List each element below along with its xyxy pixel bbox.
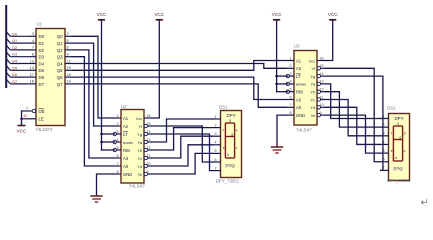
svg-text:12: 12 bbox=[147, 146, 151, 150]
svg-text:Yg: Yg bbox=[310, 74, 315, 79]
svg-text:3: 3 bbox=[32, 31, 34, 36]
svg-text:Q0: Q0 bbox=[57, 34, 63, 39]
svg-text:7: 7 bbox=[116, 162, 118, 166]
wire VCC1 stub to U2 RBI bbox=[102, 149, 115, 151]
wire U2 b to DS1 bbox=[152, 128, 213, 150]
svg-text:D7: D7 bbox=[39, 82, 45, 87]
svg-text:5: 5 bbox=[289, 88, 291, 92]
wire U2 a to DS1 bbox=[152, 119, 213, 142]
svg-text:11: 11 bbox=[147, 154, 151, 158]
svg-text:15: 15 bbox=[147, 122, 151, 126]
svg-text:a: a bbox=[229, 119, 231, 123]
wire D1 with bus entry bbox=[6, 38, 28, 43]
svg-text:Vcc: Vcc bbox=[136, 117, 142, 121]
junction bbox=[275, 75, 278, 78]
svg-text:3: 3 bbox=[116, 130, 118, 134]
svg-text:2: 2 bbox=[67, 31, 69, 36]
wire Q2 to U2 A3 bbox=[73, 50, 114, 158]
svg-text:DPY_7SEG: DPY_7SEG bbox=[387, 178, 411, 183]
svg-text:3: 3 bbox=[289, 72, 291, 76]
wire Q4 to U3 A2 bbox=[73, 64, 287, 69]
svg-text:g: g bbox=[399, 135, 401, 139]
svg-text:b: b bbox=[404, 131, 406, 135]
svg-text:D4: D4 bbox=[12, 60, 17, 64]
svg-text:Q5: Q5 bbox=[57, 68, 63, 73]
svg-text:19: 19 bbox=[67, 79, 71, 84]
svg-text:5: 5 bbox=[214, 149, 216, 153]
svg-text:13: 13 bbox=[147, 138, 151, 142]
svg-text:5: 5 bbox=[67, 38, 69, 43]
wire U3 b to DS2 bbox=[325, 92, 381, 127]
svg-text:A3: A3 bbox=[123, 156, 129, 161]
svg-text:14: 14 bbox=[30, 65, 35, 70]
svg-text:12: 12 bbox=[320, 88, 324, 92]
svg-text:Q1: Q1 bbox=[57, 41, 63, 46]
svg-text:A2: A2 bbox=[296, 66, 302, 71]
svg-text:10: 10 bbox=[147, 162, 151, 166]
svg-text:16: 16 bbox=[147, 114, 151, 118]
wire U3 f to DS2 bbox=[325, 68, 381, 161]
svg-text:DPY: DPY bbox=[394, 116, 403, 121]
svg-text:OE: OE bbox=[39, 109, 45, 114]
svg-text:f: f bbox=[223, 128, 224, 132]
wire Q3 to U2 A0 bbox=[73, 57, 114, 166]
svg-text:Ye: Ye bbox=[311, 113, 315, 118]
svg-text:74LS47: 74LS47 bbox=[296, 128, 312, 133]
svg-text:12: 12 bbox=[67, 58, 71, 63]
wire VCC1 stub to U2 BI/RBO bbox=[102, 141, 115, 143]
svg-text:D6: D6 bbox=[12, 73, 17, 77]
svg-text:D4: D4 bbox=[39, 61, 45, 66]
ground (U3) bbox=[271, 147, 283, 153]
svg-text:D6: D6 bbox=[39, 75, 45, 80]
svg-text:LT: LT bbox=[123, 132, 128, 137]
svg-text:Yb: Yb bbox=[310, 90, 315, 95]
svg-text:GND: GND bbox=[123, 172, 132, 177]
stray return-mark bbox=[421, 198, 429, 209]
svg-text:A1: A1 bbox=[296, 58, 302, 63]
svg-text:D0: D0 bbox=[12, 32, 17, 36]
svg-text:VCC: VCC bbox=[97, 12, 107, 17]
svg-text:2: 2 bbox=[289, 64, 291, 68]
svg-text:D2: D2 bbox=[39, 48, 45, 53]
svg-text:Yc: Yc bbox=[137, 156, 142, 161]
svg-text:A1: A1 bbox=[123, 116, 129, 121]
svg-text:6: 6 bbox=[289, 95, 291, 99]
svg-text:D1: D1 bbox=[39, 41, 45, 46]
svg-text:BI/RBO: BI/RBO bbox=[123, 141, 134, 145]
svg-text:4: 4 bbox=[32, 38, 35, 43]
svg-text:A0: A0 bbox=[296, 105, 302, 110]
wire U2 e to DS1 bbox=[152, 153, 213, 174]
svg-text:14: 14 bbox=[320, 72, 324, 76]
svg-text:6: 6 bbox=[214, 158, 216, 162]
svg-text:Yc: Yc bbox=[310, 97, 315, 102]
data bus bbox=[5, 5, 7, 88]
wire VCC3 stub to U3 RBI bbox=[277, 91, 288, 93]
svg-text:DS1: DS1 bbox=[219, 104, 228, 109]
svg-text:D2: D2 bbox=[12, 46, 17, 50]
svg-text:5: 5 bbox=[116, 146, 118, 150]
wire D3 with bus entry bbox=[6, 52, 28, 57]
wire VCC3 stub to U3 BI/RBO bbox=[277, 83, 288, 85]
svg-text:D1: D1 bbox=[12, 39, 17, 43]
display DS1 DPY_7SEG bbox=[213, 104, 242, 183]
wire D5 with bus entry bbox=[6, 66, 28, 71]
junction bbox=[100, 141, 103, 144]
svg-text:8: 8 bbox=[116, 170, 118, 174]
svg-text:LE: LE bbox=[39, 117, 44, 122]
svg-text:Yg: Yg bbox=[137, 132, 142, 137]
IC U3 74LS47 BCD to 7-seg decoder bbox=[286, 44, 325, 133]
svg-text:1: 1 bbox=[214, 115, 216, 119]
svg-text:GND: GND bbox=[296, 113, 305, 118]
power port VCC (U1 OE/LE) bbox=[17, 126, 27, 134]
svg-text:9: 9 bbox=[147, 170, 149, 174]
svg-text:A0: A0 bbox=[123, 164, 129, 169]
svg-text:Yd: Yd bbox=[310, 105, 315, 110]
svg-text:2: 2 bbox=[214, 123, 216, 127]
svg-text:Vcc: Vcc bbox=[309, 59, 315, 63]
svg-text:10: 10 bbox=[320, 103, 324, 107]
svg-text:8: 8 bbox=[32, 52, 34, 57]
svg-text:DPY: DPY bbox=[226, 113, 235, 118]
svg-text:17: 17 bbox=[30, 72, 34, 77]
svg-text:D7: D7 bbox=[12, 80, 17, 84]
wire VCC1 to U2 LT/BI/RBO/RBI bbox=[101, 20, 103, 150]
svg-text:Yd: Yd bbox=[137, 164, 142, 169]
svg-text:U1: U1 bbox=[37, 22, 43, 27]
wire D2 with bus entry bbox=[6, 45, 28, 50]
svg-text:[EDg]: [EDg] bbox=[394, 167, 403, 171]
svg-text:RBI: RBI bbox=[296, 90, 303, 95]
wire U3 c to DS2 bbox=[325, 100, 381, 136]
svg-text:U3: U3 bbox=[294, 44, 300, 49]
wire U2 GND bbox=[97, 174, 114, 196]
svg-text:VCC: VCC bbox=[272, 12, 282, 17]
svg-text:14: 14 bbox=[147, 130, 151, 134]
wire VCC3 to U3 LT/BI/RBO/RBI bbox=[276, 20, 278, 92]
svg-text:4: 4 bbox=[214, 141, 216, 145]
svg-text:D3: D3 bbox=[12, 53, 17, 57]
wire D0 with bus entry bbox=[6, 32, 28, 37]
wire Q7 to U3 A0 bbox=[73, 84, 287, 107]
wire VCC4 to U3 VCC pin bbox=[325, 20, 333, 61]
svg-text:DS2: DS2 bbox=[387, 106, 396, 111]
wire Q5 to U3 A1 bbox=[73, 61, 287, 71]
wire U3 a to DS2 bbox=[325, 84, 381, 119]
svg-text:D0: D0 bbox=[39, 34, 45, 39]
svg-text:Q2: Q2 bbox=[57, 48, 63, 53]
junction bbox=[100, 133, 103, 136]
wire U2 g to DS1 bbox=[152, 134, 213, 171]
svg-text:2: 2 bbox=[116, 122, 118, 126]
wire D4 with bus entry bbox=[6, 59, 28, 64]
wire OE/LE to power port bbox=[21, 111, 23, 126]
svg-text:b: b bbox=[236, 128, 238, 132]
wire D7 with bus entry bbox=[6, 79, 28, 84]
svg-text:4: 4 bbox=[116, 138, 118, 142]
svg-text:15: 15 bbox=[67, 65, 71, 70]
svg-text:D3: D3 bbox=[39, 55, 45, 60]
wire U3 g to DS2 bbox=[325, 76, 383, 170]
svg-text:1: 1 bbox=[116, 114, 118, 118]
svg-text:8: 8 bbox=[289, 111, 291, 115]
wire VCC1 stub to U2 LT bbox=[102, 133, 115, 135]
svg-text:16: 16 bbox=[67, 72, 71, 77]
wire U2 f to DS1 bbox=[152, 126, 213, 162]
svg-text:74LS47: 74LS47 bbox=[129, 183, 145, 188]
svg-text:7: 7 bbox=[214, 166, 216, 170]
power port VCC2 bbox=[154, 12, 164, 20]
wire VCC2 to U2 VCC pin bbox=[152, 20, 159, 118]
svg-text:7: 7 bbox=[32, 45, 34, 50]
wire VCC3 stub to U3 LT bbox=[277, 75, 288, 77]
svg-text:d: d bbox=[395, 156, 397, 160]
svg-text:18: 18 bbox=[30, 79, 34, 84]
power port VCC3 bbox=[272, 12, 282, 20]
svg-text:e: e bbox=[391, 149, 393, 153]
svg-text:16: 16 bbox=[320, 56, 324, 60]
svg-text:LT: LT bbox=[296, 74, 301, 79]
wire Q6 to U3 A3 bbox=[73, 77, 287, 99]
svg-text:D5: D5 bbox=[12, 66, 17, 70]
display DS2 DPY_7SEG bbox=[381, 106, 411, 184]
wire U2 c to DS1 bbox=[152, 136, 213, 158]
wire Q0 to U2 A1 bbox=[73, 36, 114, 118]
svg-text:Q6: Q6 bbox=[57, 75, 63, 80]
svg-text:A2: A2 bbox=[123, 124, 129, 129]
junction bbox=[275, 83, 278, 86]
wire D6 with bus entry bbox=[6, 72, 28, 77]
svg-text:15: 15 bbox=[320, 64, 324, 68]
power port VCC1 bbox=[97, 12, 107, 20]
IC U2 74LS47 BCD to 7-seg decoder bbox=[113, 104, 152, 189]
svg-text:7: 7 bbox=[289, 103, 291, 107]
junction bbox=[20, 118, 23, 121]
svg-text:U2: U2 bbox=[121, 104, 127, 109]
svg-text:9: 9 bbox=[67, 52, 69, 57]
wire U3 d to DS2 bbox=[325, 107, 381, 144]
svg-text:a: a bbox=[397, 122, 399, 126]
svg-text:13: 13 bbox=[30, 58, 34, 63]
svg-text:VCC: VCC bbox=[17, 129, 27, 134]
wire U3 GND bbox=[277, 115, 286, 147]
svg-text:e: e bbox=[223, 146, 225, 150]
svg-text:Q7: Q7 bbox=[57, 82, 63, 87]
svg-text:[EDg]: [EDg] bbox=[226, 164, 235, 168]
svg-text:9: 9 bbox=[320, 111, 322, 115]
svg-text:RBI: RBI bbox=[123, 148, 130, 153]
IC U1 74LS373 octal latch bbox=[22, 22, 73, 133]
svg-text:f: f bbox=[391, 131, 392, 135]
svg-text:6: 6 bbox=[116, 154, 118, 158]
svg-text:Q3: Q3 bbox=[57, 55, 63, 60]
svg-text:6: 6 bbox=[67, 45, 69, 50]
wire U2 d to DS1 bbox=[152, 145, 213, 166]
svg-text:1: 1 bbox=[26, 105, 28, 110]
svg-text:11: 11 bbox=[320, 95, 324, 99]
svg-text:13: 13 bbox=[320, 80, 324, 84]
svg-text:D5: D5 bbox=[39, 68, 45, 73]
svg-text:d: d bbox=[227, 153, 229, 157]
svg-text:A3: A3 bbox=[296, 97, 302, 102]
svg-text:4: 4 bbox=[289, 80, 291, 84]
wire Q1 to U2 A2 bbox=[73, 43, 114, 126]
svg-text:g: g bbox=[231, 132, 233, 136]
svg-text:Ye: Ye bbox=[138, 172, 142, 177]
wire U3 e to DS2 bbox=[325, 115, 381, 153]
svg-text:VCC: VCC bbox=[154, 12, 164, 17]
svg-text:11: 11 bbox=[23, 113, 27, 118]
power port VCC4 bbox=[328, 12, 338, 20]
svg-text:Q4: Q4 bbox=[57, 61, 63, 66]
svg-text:1: 1 bbox=[289, 56, 291, 60]
ground (U2) bbox=[90, 196, 102, 202]
svg-text:↵: ↵ bbox=[421, 198, 429, 209]
svg-text:BI/RBO: BI/RBO bbox=[296, 83, 307, 87]
svg-text:74LS373: 74LS373 bbox=[36, 127, 53, 132]
svg-text:DPY_7SEG: DPY_7SEG bbox=[216, 178, 240, 183]
svg-text:3: 3 bbox=[214, 132, 216, 136]
svg-text:VCC: VCC bbox=[328, 12, 338, 17]
svg-text:Yb: Yb bbox=[137, 148, 142, 153]
